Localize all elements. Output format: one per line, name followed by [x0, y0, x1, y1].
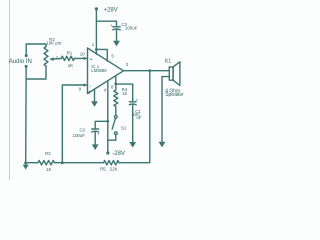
op-amp U1 triangle — [88, 48, 124, 94]
node output junction dot — [148, 69, 151, 72]
resistor R1 — [61, 56, 74, 60]
resistor R4 — [114, 84, 118, 107]
node -28V terminal dot — [106, 151, 109, 154]
svg-text:+28V: +28V — [104, 7, 118, 13]
svg-text:1K: 1K — [122, 91, 127, 96]
wiper arrow of R2 — [51, 58, 61, 60]
capacitor C3 — [113, 26, 120, 28]
wire branch to C3 — [96, 21, 116, 26]
wire to C2 — [95, 121, 108, 128]
svg-text:1K: 1K — [46, 167, 51, 172]
potentiometer R2 body — [44, 47, 48, 66]
svg-text:R3: R3 — [45, 151, 51, 156]
resistor R5 — [104, 161, 120, 165]
node +28V terminal dot — [95, 7, 98, 10]
node feedback junction dot — [61, 161, 64, 164]
svg-text:K1: K1 — [165, 58, 171, 64]
svg-text:S1: S1 — [121, 126, 127, 131]
svg-text:10K pot: 10K pot — [46, 40, 62, 45]
Audio IN input loop — [26, 44, 46, 55]
wire C3 to ground — [116, 30, 118, 41]
svg-text:22K: 22K — [110, 167, 118, 172]
wire output pin 3 — [124, 70, 170, 72]
svg-text:LM3886: LM3886 — [91, 68, 107, 73]
wire pin8 node to C1 — [116, 84, 133, 101]
svg-text:Audio IN: Audio IN — [9, 59, 32, 65]
svg-text:Speaker: Speaker — [165, 92, 184, 98]
capacitor C1 — [129, 101, 136, 103]
wire +V rail down from +28V terminal — [95, 9, 97, 50]
switch S1 — [115, 107, 117, 116]
resistor R3 — [38, 161, 55, 165]
node input hot dot — [25, 54, 28, 57]
svg-text:100uF: 100uF — [125, 26, 138, 31]
ground below speaker — [159, 142, 166, 148]
svg-text:uF: uF — [136, 115, 141, 120]
svg-text:1K: 1K — [68, 63, 73, 68]
wire pin 7 to ground — [94, 89, 96, 101]
wire pin 5 feed — [96, 49, 107, 61]
ground below C1 — [129, 142, 136, 148]
svg-text:+: + — [110, 23, 113, 28]
svg-text:10: 10 — [80, 51, 85, 56]
wire C1 to ground — [132, 105, 134, 143]
ground bottom-left — [23, 165, 29, 170]
wire feedback down from output — [119, 71, 150, 163]
svg-text:+: + — [136, 98, 139, 103]
svg-text:+: + — [97, 132, 100, 137]
wire bottom ground rail — [26, 162, 38, 164]
wire C2 to ground — [94, 132, 96, 145]
node ground rail dot — [24, 162, 27, 165]
wire inverting input — [62, 85, 87, 163]
wire R1 to +input — [74, 57, 87, 59]
ground below pin 7 — [91, 101, 98, 107]
wire pin 4 down to -28V — [107, 81, 109, 153]
capacitor C2 — [92, 128, 99, 130]
svg-text:3: 3 — [56, 55, 58, 59]
svg-text:C2: C2 — [80, 127, 86, 132]
wire pin 8 stub — [115, 76, 117, 84]
svg-text:R5: R5 — [100, 167, 106, 172]
svg-text:100uF: 100uF — [73, 133, 86, 138]
node junction pin1/pin5 supply — [95, 48, 98, 51]
wire input gnd side — [26, 66, 46, 79]
speaker K1 — [169, 67, 173, 80]
node input gnd dot — [25, 65, 28, 68]
svg-text:-28V: -28V — [112, 151, 125, 157]
svg-text:R1: R1 — [67, 51, 73, 56]
wire speaker return — [162, 77, 169, 143]
wire S1 to -28V node — [108, 135, 116, 141]
node pin4/C2 junction — [106, 120, 109, 123]
wire pin 1 stub — [95, 49, 97, 54]
ground below C3 — [113, 41, 120, 47]
wire R3 to R5 — [55, 162, 104, 164]
node pin8 dot — [114, 83, 117, 86]
svg-text:+: + — [90, 57, 93, 63]
ground below C2 — [92, 144, 99, 150]
wire left vertical to ground rail — [25, 79, 27, 163]
